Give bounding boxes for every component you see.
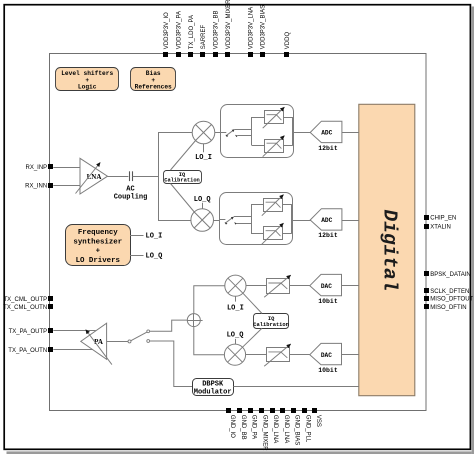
wire TX_PA_OUTP from PA: [53, 330, 95, 332]
pin TX_CML_OUTN (left): [3, 304, 53, 311]
block IQ Calibration (RX): [164, 171, 202, 184]
pin VSS (bottom): [312, 408, 321, 427]
svg-text:MISO_DFTIN: MISO_DFTIN: [430, 305, 466, 311]
wire switch throw 2 to DBPSK modulator: [150, 341, 193, 387]
block Frequency synthesizer + LO Drivers: [66, 225, 131, 266]
wire RX_INN to LNA: [53, 185, 80, 187]
pin GND_IO (bottom): [226, 408, 235, 438]
wire TX mixer I to filter I: [246, 285, 266, 287]
svg-text:ADC: ADC: [321, 217, 332, 224]
block RX channel filter bank I (switch + programmable filters): [220, 105, 294, 158]
net label LO_Q (RX mixer): [194, 196, 211, 204]
wire LO_Q stub from synthesizer: [130, 255, 144, 257]
wire TX mixer Q to filter Q: [246, 354, 267, 356]
svg-text:VSS: VSS: [315, 415, 321, 427]
pin VDD3P3V_IO (top): [163, 12, 170, 57]
switch TX (pole): [128, 332, 147, 343]
pin VDD3P3V_BB (top): [213, 11, 220, 57]
chip boundary rectangle: [50, 54, 427, 411]
mixer RX Q: [191, 203, 214, 232]
pin GND_BB (bottom): [237, 408, 246, 440]
pin CHIP_EN (right): [424, 215, 456, 221]
pin VDD3P3V_MIXER (top): [225, 0, 232, 57]
svg-text:10bit: 10bit: [318, 298, 338, 305]
pin MISO_DFTOUT (right): [424, 296, 474, 303]
net label LO_I (RX mixer): [195, 154, 212, 162]
svg-text:SARREF: SARREF: [201, 25, 207, 50]
svg-text:AC: AC: [126, 186, 134, 194]
mixer TX I: [225, 275, 246, 302]
svg-text:Calibration: Calibration: [164, 178, 200, 184]
pin VDD3P3V_BIAS (top): [260, 5, 267, 57]
pin MISO_DFTIN (right): [424, 304, 467, 311]
svg-text:GND_PLL: GND_PLL: [304, 415, 310, 443]
svg-text:RX_INN: RX_INN: [25, 184, 47, 190]
svg-text:synthesizer: synthesizer: [73, 239, 122, 247]
pin GND_LNA (bottom): [280, 408, 289, 443]
DAC Q 10bit: [310, 343, 342, 374]
block RX channel filter bank Q (switch + programmable filters): [219, 193, 292, 245]
DAC I 10bit: [310, 274, 342, 305]
frame shadow bottom: [7, 451, 472, 454]
svg-text:GND_MIXER: GND_MIXER: [261, 415, 267, 451]
svg-text:12bit: 12bit: [318, 145, 338, 152]
svg-text:10bit: 10bit: [318, 367, 338, 374]
svg-text:Modulator: Modulator: [194, 388, 232, 396]
wire PA input from switch: [107, 341, 128, 343]
wire splitter to RX mixer Q: [158, 220, 191, 222]
svg-text:LO_I: LO_I: [195, 154, 212, 162]
svg-text:IQ: IQ: [268, 316, 275, 322]
svg-text:GND_LNA: GND_LNA: [283, 415, 289, 443]
net label LO_Q (synthesizer output): [146, 253, 163, 261]
svg-text:VDD3P3V_LNA: VDD3P3V_LNA: [248, 7, 254, 49]
block Level shifters + Logic: [56, 68, 119, 91]
TX reconstruction filter I: [264, 275, 291, 297]
svg-text:LO_Q: LO_Q: [194, 196, 211, 204]
svg-text:VDD3P3V_MIXER: VDD3P3V_MIXER: [226, 0, 232, 49]
block Bias + References: [131, 68, 176, 91]
wire summing junction to TX mixer I: [194, 286, 225, 314]
wire DAC I to Digital: [341, 285, 359, 287]
wire ADC Q to Digital: [342, 220, 359, 222]
svg-text:LO_I: LO_I: [227, 304, 244, 312]
svg-text:GND_BIAS: GND_BIAS: [294, 415, 300, 445]
wire RX_INP to LNA: [53, 167, 80, 169]
svg-text:TX_LDO_PA: TX_LDO_PA: [189, 15, 195, 49]
svg-text:XTALIN: XTALIN: [430, 225, 451, 231]
pin VDD3P3V_PA (top): [176, 11, 182, 57]
net label LO_Q (TX mixer): [227, 332, 244, 340]
svg-text:TX_CML_OUTP: TX_CML_OUTP: [4, 297, 48, 303]
svg-text:LO_Q: LO_Q: [227, 332, 244, 340]
switch TX throw 1 contact: [147, 330, 150, 333]
wire TX filter I to DAC I: [289, 285, 309, 287]
svg-text:12bit: 12bit: [318, 232, 338, 239]
wire IQ calibration to RX mixer I: [171, 140, 197, 170]
mixer TX Q: [224, 339, 245, 365]
svg-text:LO_I: LO_I: [146, 233, 163, 241]
block Digital (baseband processor): [359, 104, 415, 395]
pin GND_PA (bottom): [248, 408, 257, 439]
svg-text:VDD3P3V_IO: VDD3P3V_IO: [164, 12, 170, 49]
svg-text:Bias: Bias: [146, 70, 161, 77]
wire DAC Q to Digital: [341, 354, 359, 356]
net label LO_I (synthesizer output): [146, 233, 163, 241]
pin VDDQ (top): [284, 32, 291, 57]
svg-text:Calibration: Calibration: [253, 322, 289, 328]
wire RX filter I to ADC I: [294, 132, 311, 134]
pin RX_INN (left): [25, 183, 53, 190]
switch TX throw 2 contact: [147, 340, 150, 343]
block DBPSK Modulator: [193, 379, 234, 397]
svg-text:LO_Q: LO_Q: [146, 253, 163, 261]
svg-text:DAC: DAC: [321, 352, 332, 359]
summing junction TX: [187, 314, 202, 327]
wire LNA output: [108, 176, 129, 178]
svg-text:References: References: [135, 84, 172, 91]
pin GND_MIXER (bottom): [259, 408, 267, 451]
pin GND_PLL (bottom): [302, 408, 310, 443]
pin TX_LDO_PA (top): [188, 15, 195, 57]
wire splitter to RX mixer I: [158, 132, 192, 134]
svg-text:GND_BB: GND_BB: [240, 415, 246, 440]
svg-text:VDDQ: VDDQ: [285, 32, 291, 50]
amplifier LNA: [76, 158, 108, 194]
pin SCLK_DFTEN (right): [424, 288, 469, 295]
svg-text:MISO_DFTOUT: MISO_DFTOUT: [430, 297, 473, 303]
svg-text:LO Drivers: LO Drivers: [76, 257, 120, 265]
svg-text:TX_CML_OUTN: TX_CML_OUTN: [3, 305, 47, 311]
svg-text:DBPSK: DBPSK: [202, 381, 224, 389]
svg-text:GND_PA: GND_PA: [251, 415, 257, 439]
svg-text:+: +: [96, 248, 101, 256]
pin GND_BIAS (bottom): [291, 408, 300, 445]
svg-text:VDD3P3V_PA: VDD3P3V_PA: [176, 11, 182, 49]
wire DBPSK modulator to Digital: [233, 386, 358, 388]
svg-text:TX_PA_OUTP: TX_PA_OUTP: [9, 329, 48, 335]
pin TX_PA_OUTN (left): [8, 347, 53, 354]
svg-text:Level shifters: Level shifters: [61, 70, 113, 77]
svg-text:DAC: DAC: [321, 283, 332, 290]
net label LO_I (TX mixer): [227, 304, 244, 312]
pin GND_LNA (bottom): [270, 408, 278, 443]
svg-text:ADC: ADC: [321, 130, 332, 137]
svg-text:BPSK_DATAIN: BPSK_DATAIN: [430, 272, 470, 278]
ADC I 12bit: [310, 121, 342, 152]
wire TX_PA_OUTN from PA: [53, 349, 92, 351]
pin BPSK_DATAIN (right): [424, 271, 471, 278]
svg-text:SCLK_DFTEN: SCLK_DFTEN: [430, 289, 469, 295]
wire IQ calibration TX to mixer Q: [243, 328, 263, 347]
capacitor AC coupling: [114, 171, 148, 201]
svg-text:Digital: Digital: [378, 210, 400, 292]
svg-text:TX_PA_OUTN: TX_PA_OUTN: [8, 348, 47, 354]
ADC Q 12bit: [310, 209, 342, 239]
wire switch throw 1 to summing junction: [150, 320, 188, 331]
mixer RX I: [192, 121, 215, 152]
pin SARREF (top): [200, 25, 207, 57]
svg-text:GND_LNA: GND_LNA: [272, 415, 278, 443]
svg-text:RX_INP: RX_INP: [26, 165, 48, 171]
wire RX mixer I to filter bank I: [215, 132, 220, 134]
svg-text:CHIP_EN: CHIP_EN: [430, 215, 456, 221]
TX reconstruction filter Q: [264, 344, 291, 366]
wire IQ calibration TX to mixer I: [243, 293, 262, 313]
svg-text:GND_IO: GND_IO: [229, 415, 235, 438]
block IQ Calibration (TX): [253, 314, 289, 329]
wire splitter vertical: [158, 133, 160, 221]
wire ADC I to Digital: [342, 132, 359, 134]
svg-text:Logic: Logic: [78, 84, 97, 91]
svg-text:VDD3P3V_BIAS: VDD3P3V_BIAS: [261, 5, 267, 49]
wire LO_I stub from synthesizer: [130, 235, 144, 237]
svg-text:Frequency: Frequency: [78, 229, 118, 237]
wire TX filter Q to DAC Q: [289, 354, 309, 356]
wire summing junction to TX mixer Q: [194, 327, 225, 355]
frame shadow right: [472, 7, 474, 454]
svg-text:Coupling: Coupling: [114, 194, 148, 202]
pin RX_INP (left): [26, 164, 53, 171]
svg-text:VDD3P3V_BB: VDD3P3V_BB: [214, 11, 220, 50]
pin TX_CML_OUTP (left): [4, 296, 53, 303]
wire RX mixer Q to filter bank Q: [213, 220, 219, 222]
wire RX filter Q to ADC Q: [292, 220, 311, 222]
wire IQ calibration to RX mixer Q: [171, 184, 195, 213]
wire capacitor to splitter: [133, 176, 158, 178]
pin TX_PA_OUTP (left): [9, 328, 53, 335]
amplifier PA: [81, 323, 112, 364]
pin VDD3P3V_LNA (top): [248, 7, 254, 57]
pin XTALIN (right): [424, 224, 451, 231]
